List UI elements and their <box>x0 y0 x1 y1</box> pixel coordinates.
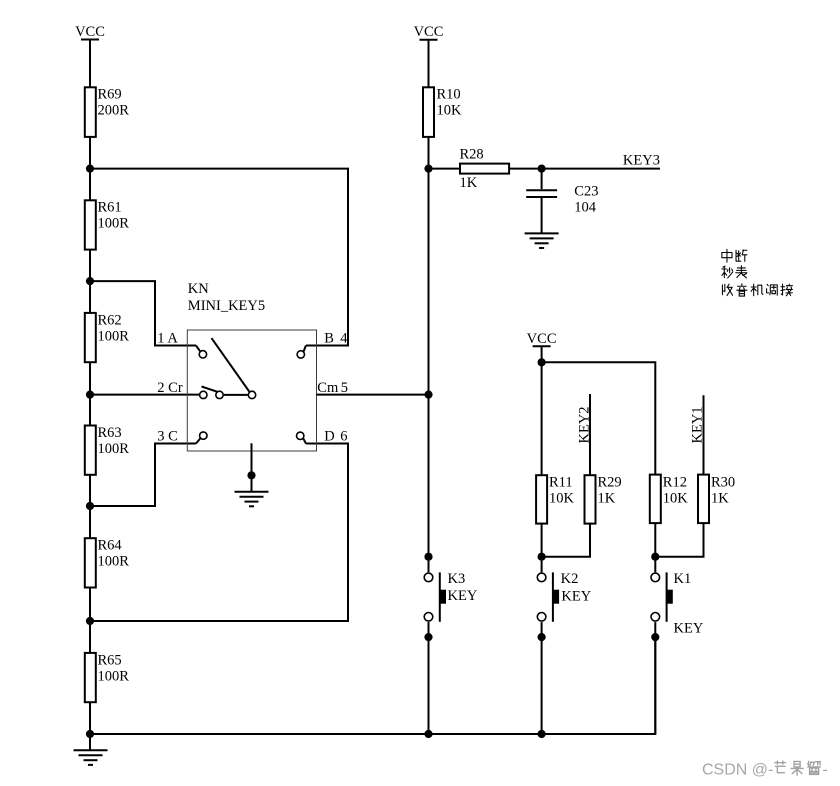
node junction B <box>86 277 94 285</box>
svg-text:R29: R29 <box>598 474 622 490</box>
wire K3 to bottom rail <box>428 622 430 734</box>
svg-text:3 C: 3 C <box>157 429 178 445</box>
wire to R28 <box>429 168 461 170</box>
wire K2 to bottom rail <box>541 622 543 734</box>
svg-text:VCC: VCC <box>414 24 444 40</box>
svg-text:KEY3: KEY3 <box>623 152 660 168</box>
node junction under box <box>247 471 255 479</box>
switch lever <box>212 338 250 391</box>
resistor R29 1K <box>585 474 622 523</box>
wire pin D6 loop to node E <box>90 444 348 622</box>
switch K2 KEY <box>537 553 591 642</box>
svg-text:104: 104 <box>574 199 597 215</box>
node junction D <box>86 502 94 510</box>
resistor R62 100R <box>85 312 129 362</box>
ground (bottom-left) <box>74 734 108 765</box>
svg-text:R12: R12 <box>663 474 687 490</box>
svg-text:B: B <box>324 331 334 347</box>
svg-text:1K: 1K <box>598 490 616 506</box>
pin 3 C <box>157 429 207 445</box>
svg-text:6: 6 <box>340 429 347 445</box>
svg-text:KEY1: KEY1 <box>689 406 705 443</box>
svg-text:10K: 10K <box>549 490 575 506</box>
watermark CSDN @-芒果酱- <box>702 761 828 778</box>
svg-text:R62: R62 <box>98 312 122 328</box>
power VCC (middle-right) <box>527 331 557 363</box>
svg-text:KEY: KEY <box>561 589 591 605</box>
svg-text:100R: 100R <box>98 216 130 232</box>
pin 1 A <box>157 331 206 358</box>
svg-text:-: - <box>823 762 828 779</box>
svg-text:R11: R11 <box>549 474 573 490</box>
svg-text:R30: R30 <box>711 474 735 490</box>
node bottom-left junction <box>86 730 94 738</box>
node junction C <box>86 391 94 399</box>
svg-text:100R: 100R <box>98 668 130 684</box>
resistor R10 10K <box>423 87 462 137</box>
wire left rail R65 to bottom rail <box>89 702 91 734</box>
wire R28 to KEY3 <box>509 168 660 170</box>
svg-text:R61: R61 <box>98 200 122 216</box>
pin D 6 <box>297 429 348 445</box>
pin Cm 5 <box>317 380 429 396</box>
svg-text:R65: R65 <box>98 652 122 668</box>
switch K3 KEY <box>424 553 478 642</box>
svg-text:1K: 1K <box>460 175 478 191</box>
resistor R63 100R <box>85 425 129 475</box>
svg-text:K1: K1 <box>674 571 692 587</box>
net label 收音机调接 <box>722 284 792 296</box>
svg-text:KEY2: KEY2 <box>576 406 592 443</box>
svg-text:R28: R28 <box>460 146 484 162</box>
node KEY1 line <box>689 395 705 474</box>
resistor R28 1K <box>460 146 510 191</box>
svg-text:D: D <box>324 429 334 445</box>
svg-text:KN: KN <box>188 281 209 297</box>
svg-text:R64: R64 <box>98 538 123 554</box>
wire node C to pin 2 <box>90 394 199 396</box>
resistor R69 200R <box>85 87 129 137</box>
capacitor C23 104 <box>526 169 598 233</box>
wire pin 3 to node D <box>90 444 196 507</box>
wire node B to pin 1 <box>90 281 196 345</box>
svg-text:R10: R10 <box>437 87 461 103</box>
power VCC (top-left) <box>75 24 105 88</box>
svg-text:MINI_KEY5: MINI_KEY5 <box>188 298 265 314</box>
net label 秒表 <box>722 266 747 278</box>
net label 中断 <box>722 249 747 262</box>
svg-text:2 Cr: 2 Cr <box>157 380 183 396</box>
node junction R28 tap <box>424 165 432 173</box>
wire K1 to bottom rail corner <box>654 622 656 734</box>
pin B 4 <box>297 331 348 358</box>
wire R29 to K2 node <box>542 523 590 557</box>
svg-text:4: 4 <box>340 331 348 347</box>
svg-text:CSDN @-: CSDN @- <box>702 762 773 779</box>
ground (under C23) <box>525 233 559 248</box>
resistor R30 1K <box>698 474 735 523</box>
switch K1 KEY <box>651 553 704 642</box>
wire VCC2 to K1 rail <box>542 362 656 474</box>
svg-text:R69: R69 <box>98 87 122 103</box>
resistor R12 10K <box>650 474 689 523</box>
wire left rail R61-R62 <box>89 250 91 313</box>
wire left rail R64-R65 <box>89 588 91 653</box>
wire R12 to K1 <box>654 523 656 572</box>
svg-text:200R: 200R <box>98 103 130 119</box>
svg-text:VCC: VCC <box>527 331 557 347</box>
wire R30 to K1 node <box>655 523 703 557</box>
power VCC (top-middle) <box>414 24 444 88</box>
svg-text:10K: 10K <box>663 490 689 506</box>
wire R10 rail down to K3 <box>428 137 430 572</box>
node K2 bottom rail junction <box>538 730 546 738</box>
ground (under MINI_KEY5) <box>235 492 269 507</box>
svg-text:VCC: VCC <box>75 24 105 40</box>
resistor R61 100R <box>85 200 129 250</box>
svg-text:KEY: KEY <box>448 588 478 604</box>
node junction C23 tap <box>538 165 546 173</box>
node junction A <box>86 165 94 173</box>
node junction Cm5-rail <box>424 391 432 399</box>
wire node A to right loop top <box>90 169 348 346</box>
svg-text:100R: 100R <box>98 441 130 457</box>
wire left rail R63-R64 <box>89 475 91 538</box>
svg-text:100R: 100R <box>98 328 130 344</box>
pin 2 Cr contacts <box>157 380 255 398</box>
svg-text:10K: 10K <box>437 103 463 119</box>
wire bottom rail <box>90 637 655 734</box>
wire VCC2 down to R11 <box>541 362 543 475</box>
svg-text:K3: K3 <box>448 571 466 587</box>
node K3 bottom rail junction <box>424 730 432 738</box>
node junction VCC2 <box>538 358 546 366</box>
resistor R64 100R <box>85 538 129 588</box>
wire R11 to K2 <box>541 523 543 573</box>
svg-text:1K: 1K <box>711 490 729 506</box>
node KEY2 line <box>576 394 592 475</box>
svg-text:100R: 100R <box>98 554 130 570</box>
svg-text:1 A: 1 A <box>157 331 178 347</box>
wire left rail R69-R61 <box>89 137 91 200</box>
node junction E <box>86 617 94 625</box>
resistor R65 100R <box>85 652 129 702</box>
wire left rail R62-R63 <box>89 362 91 425</box>
switch KN MINI_KEY5 <box>187 281 316 451</box>
svg-text:KEY: KEY <box>674 621 704 637</box>
svg-text:R63: R63 <box>98 425 122 441</box>
resistor R11 10K <box>536 474 574 523</box>
svg-text:K2: K2 <box>561 571 579 587</box>
svg-text:C23: C23 <box>574 183 598 199</box>
wire box center pin to ground <box>251 443 253 491</box>
